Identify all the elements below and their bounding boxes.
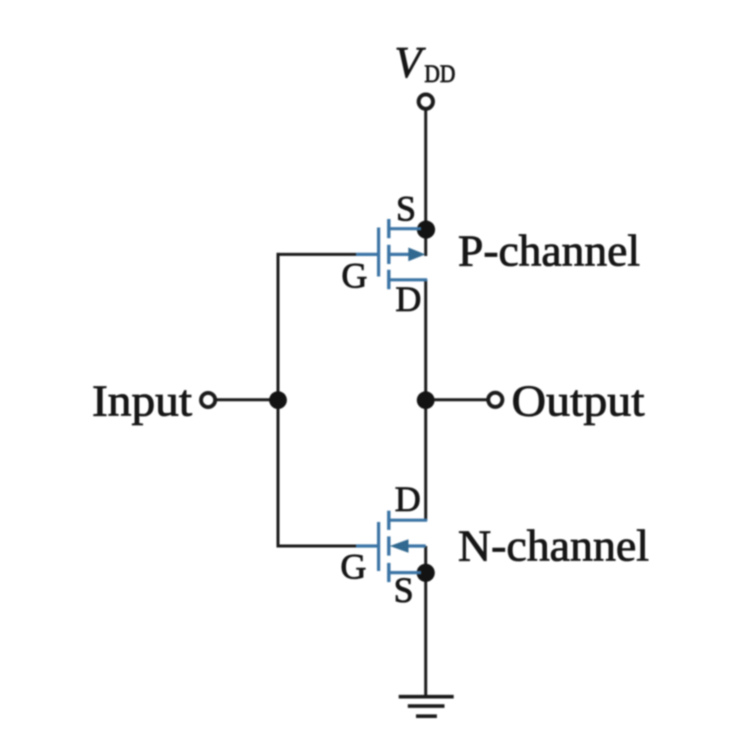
- svg-text:G: G: [340, 547, 366, 587]
- svg-text:D: D: [395, 279, 421, 319]
- svg-text:DD: DD: [424, 61, 455, 88]
- svg-text:S: S: [396, 188, 416, 228]
- svg-text:G: G: [341, 255, 367, 295]
- svg-text:D: D: [395, 479, 421, 519]
- svg-text:Input: Input: [92, 376, 192, 425]
- svg-text:V: V: [395, 38, 427, 87]
- svg-text:Output: Output: [512, 377, 645, 426]
- svg-text:P-channel: P-channel: [458, 226, 640, 275]
- svg-text:S: S: [394, 570, 414, 610]
- svg-text:N-channel: N-channel: [458, 522, 649, 571]
